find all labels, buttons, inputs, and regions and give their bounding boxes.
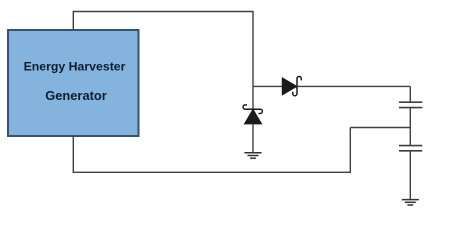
wire: node to horizontal diode anode xyxy=(253,85,283,87)
capacitor C2 xyxy=(399,146,422,151)
capacitor C1 xyxy=(399,102,422,107)
ground (below D2) xyxy=(244,153,261,158)
wire: node down to diode D2 cathode xyxy=(252,86,254,109)
wire: diode D1 cathode to capacitor column xyxy=(297,85,410,87)
wire: bottom return loop from generator to mid node xyxy=(73,128,350,173)
svg-text:Energy Harvester: Energy Harvester xyxy=(24,60,126,74)
wire: cap column bottom lead to ground xyxy=(409,151,411,199)
wire: mid node to cap column xyxy=(350,127,410,129)
diode D2 (vertical schottky pointing up) xyxy=(243,105,262,124)
ground (bottom right) xyxy=(402,200,419,205)
wire: cap column top lead xyxy=(409,86,411,102)
wire: top loop from generator to diode node xyxy=(73,12,253,87)
svg-text:Generator: Generator xyxy=(45,88,107,103)
wire: between capacitors xyxy=(409,108,411,146)
diode D1 (horizontal schottky) xyxy=(282,76,301,95)
wire: diode D2 anode to ground xyxy=(252,124,254,153)
Energy Harvester Generator block xyxy=(8,30,139,136)
